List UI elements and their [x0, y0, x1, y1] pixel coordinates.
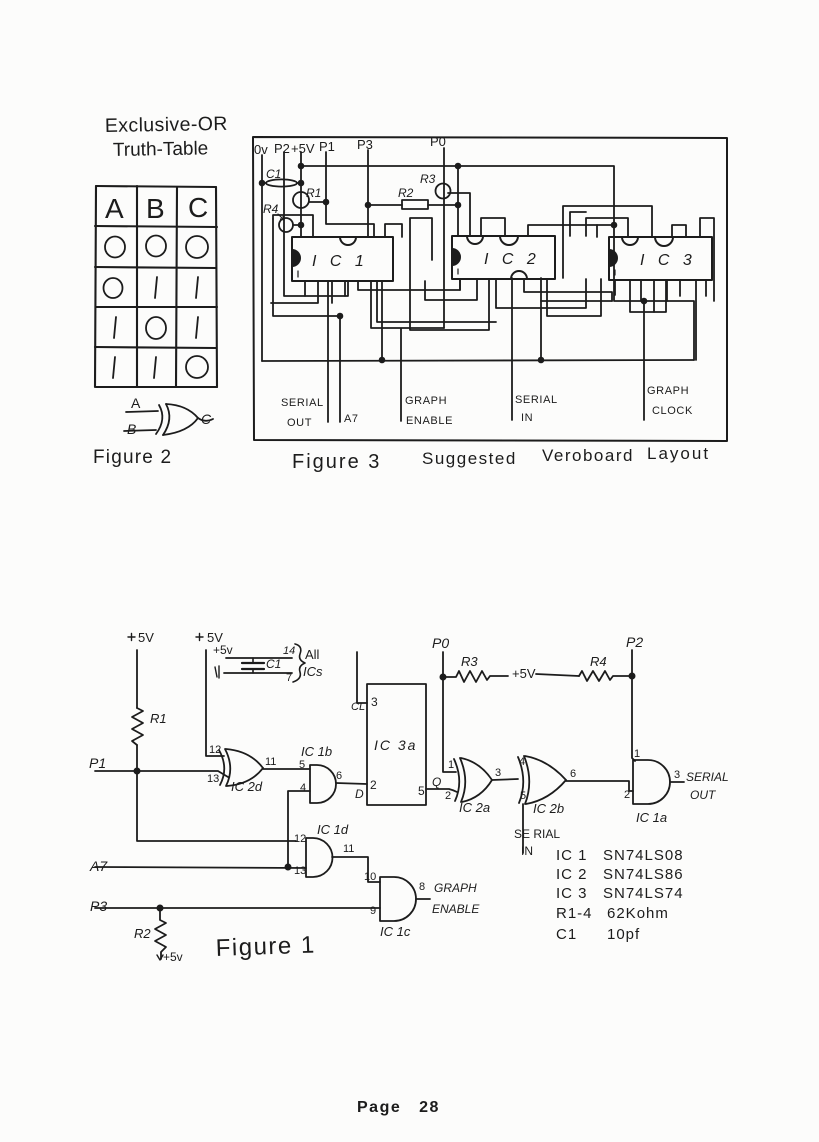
AND gate IC1a	[633, 760, 670, 804]
node P3	[95, 905, 380, 910]
flip-flop IC3a	[367, 684, 426, 805]
caption Figure 3	[292, 451, 381, 473]
wire serial in track	[511, 278, 513, 420]
svg-text:IC 1: IC 1	[556, 847, 588, 864]
svg-text:D: D	[355, 787, 364, 801]
svg-text:Exclusive-OR: Exclusive-OR	[105, 113, 228, 137]
svg-text:IC 3a: IC 3a	[374, 737, 417, 753]
AND gate IC1d	[306, 838, 333, 877]
row 1 0 1	[114, 317, 198, 339]
caption Figure 2	[93, 447, 172, 468]
resistor R3	[443, 671, 508, 682]
truth table grid	[95, 186, 217, 387]
node P1 input	[95, 771, 228, 777]
svg-text:R4: R4	[590, 654, 607, 669]
wire jog between IC1 IC2	[410, 218, 489, 330]
row 1 1 0	[113, 356, 208, 378]
outer board rectangle	[253, 137, 727, 441]
svg-text:Figure 1: Figure 1	[215, 932, 316, 962]
svg-text:P0: P0	[432, 635, 449, 651]
wire IC2-IC3 link	[524, 279, 612, 301]
svg-text:IC 1a: IC 1a	[636, 810, 667, 825]
clock stub CL	[357, 652, 367, 703]
svg-text:2: 2	[370, 778, 377, 792]
svg-text:+5V: +5V	[512, 666, 536, 681]
title Exclusive-OR	[105, 113, 228, 161]
svg-text:GRAPH: GRAPH	[647, 385, 689, 397]
svg-text:C1: C1	[556, 926, 577, 943]
row 0 0 0	[105, 236, 208, 259]
+5V mid label	[512, 666, 536, 681]
resistor R3	[436, 184, 471, 237]
wire IC1b out to IC3a D	[336, 783, 367, 784]
node P2	[629, 650, 635, 761]
wire IC1-IC2 link	[358, 279, 460, 290]
svg-text:13: 13	[207, 773, 219, 785]
wire IC1c out graph enable	[416, 898, 430, 900]
serial in stub	[522, 804, 524, 853]
svg-text:4: 4	[519, 756, 525, 768]
svg-text:P0: P0	[430, 134, 446, 149]
node P0	[440, 652, 456, 772]
+5V rail	[300, 152, 302, 237]
wire IC2 pin to bottom bus	[540, 278, 542, 360]
svg-text:SN74LS86: SN74LS86	[603, 866, 684, 883]
node A7	[95, 867, 306, 868]
svg-text:SERIAL: SERIAL	[686, 770, 729, 784]
svg-text:P3: P3	[357, 137, 373, 152]
wire jogs above IC3 left	[586, 218, 628, 237]
svg-text:8: 8	[419, 881, 425, 893]
svg-text:R2: R2	[398, 186, 414, 200]
svg-text:3: 3	[495, 767, 501, 779]
AND gate IC1c	[380, 877, 416, 921]
wire IC1a out serial out	[670, 781, 684, 783]
svg-text:IC 2: IC 2	[556, 866, 588, 883]
IC 1 package	[292, 237, 393, 281]
svg-text:OUT: OUT	[690, 788, 717, 802]
wire vertical into IC2 pin	[457, 166, 459, 236]
svg-text:6: 6	[336, 770, 342, 782]
svg-text:IC 2b: IC 2b	[533, 801, 564, 816]
svg-text:Page 28: Page 28	[357, 1099, 440, 1116]
svg-text:10: 10	[364, 871, 376, 883]
svg-text:I C 3: I C 3	[640, 252, 696, 269]
IC 3 package	[609, 237, 712, 280]
svg-text:5: 5	[418, 784, 425, 798]
wire IC1 pin to bottom bus	[381, 281, 383, 360]
svg-text:+5v: +5v	[213, 643, 233, 657]
svg-text:SE RIAL: SE RIAL	[514, 827, 560, 841]
svg-text:13: 13	[294, 865, 306, 877]
IC 2 package	[452, 236, 555, 279]
svg-text:R3: R3	[420, 172, 436, 186]
svg-text:Q: Q	[432, 775, 441, 789]
svg-text:5: 5	[299, 759, 305, 771]
svg-text:A7: A7	[89, 858, 108, 874]
resistor R1	[132, 708, 143, 745]
top rail labels	[254, 134, 446, 157]
svg-text:5V: 5V	[138, 630, 154, 645]
svg-text:P2: P2	[626, 634, 643, 650]
wire IC2b out to IC1a in2	[566, 781, 633, 791]
wire R4 loop to A7 track	[273, 215, 342, 422]
svg-text:IC 3: IC 3	[556, 885, 588, 902]
svg-text:B: B	[127, 421, 136, 437]
svg-text:IC 2d: IC 2d	[231, 779, 263, 794]
wire IC2 lower stub left	[459, 279, 461, 290]
svg-text:IC 1c: IC 1c	[380, 924, 411, 939]
wire IC2d out to IC1b in5	[263, 768, 310, 770]
svg-text:IC 1d: IC 1d	[317, 822, 349, 837]
svg-text:10pf: 10pf	[607, 926, 640, 943]
capacitor C1	[242, 658, 264, 673]
svg-text:P1: P1	[89, 755, 106, 771]
P3 rail	[367, 150, 369, 237]
svg-text:3: 3	[674, 769, 680, 781]
bottom track labels	[281, 385, 693, 429]
wire jog right of IC3	[700, 218, 714, 301]
+5V top bus	[299, 164, 694, 360]
resistor R2 vertical	[155, 908, 166, 960]
svg-text:SN74LS08: SN74LS08	[603, 847, 684, 864]
svg-text:62Kohm: 62Kohm	[607, 905, 669, 922]
header C	[188, 192, 208, 223]
header B	[146, 193, 165, 224]
P2 rail	[284, 152, 348, 296]
svg-text:5: 5	[520, 790, 526, 802]
wire IC1 bottom stubs	[271, 281, 318, 303]
wire Q to IC2a in2	[426, 789, 457, 792]
wire below IC3 horizontal	[541, 300, 612, 302]
labels A B C of xor	[127, 395, 212, 437]
svg-text:9: 9	[370, 905, 376, 917]
parts list	[556, 847, 684, 943]
svg-text:Truth-Table: Truth-Table	[113, 138, 209, 161]
svg-text:3: 3	[371, 695, 378, 709]
svg-text:GRAPH: GRAPH	[405, 395, 447, 407]
wire +5V to R4	[536, 674, 579, 676]
svg-text:C1: C1	[266, 657, 281, 671]
svg-text:Layout: Layout	[647, 444, 710, 463]
svg-text:P2: P2	[274, 141, 290, 156]
XOR gate IC2b	[518, 756, 566, 804]
wire bus jog above IC2	[528, 225, 614, 236]
svg-text:I C 2: I C 2	[484, 251, 540, 268]
svg-text:R4: R4	[263, 202, 279, 216]
svg-text:1: 1	[448, 759, 454, 771]
svg-text:A: A	[131, 395, 141, 411]
svg-text:GRAPH: GRAPH	[434, 881, 477, 895]
svg-text:2: 2	[624, 789, 630, 801]
svg-text:+5v: +5v	[163, 950, 183, 964]
svg-text:11: 11	[343, 843, 354, 855]
wire jog above IC3	[563, 206, 652, 278]
capacitor C1	[260, 179, 304, 186]
svg-text:IN: IN	[521, 844, 533, 858]
svg-text:CLOCK: CLOCK	[652, 405, 693, 417]
decoupling top rail	[226, 657, 292, 659]
resistor R2	[366, 200, 461, 209]
svg-text:B: B	[146, 193, 165, 224]
+5V supply left	[128, 634, 137, 709]
svg-text:IC 2a: IC 2a	[459, 800, 490, 815]
caption Suggested Veroboard Layout	[422, 444, 710, 468]
0v rail	[261, 155, 263, 361]
wire right of IC3 long loop	[672, 225, 686, 237]
svg-text:ICs: ICs	[303, 664, 323, 679]
wire graph clock track	[642, 299, 647, 420]
P0 rail	[443, 148, 445, 328]
svg-text:R1: R1	[150, 711, 167, 726]
header A	[105, 193, 124, 224]
wire jogs above IC2 right	[481, 218, 505, 236]
resistor R4	[579, 671, 632, 681]
wire IC3 lower runs	[615, 280, 667, 312]
svg-text:12: 12	[209, 744, 221, 756]
svg-text:IN: IN	[521, 412, 533, 424]
wire IC1 lower stubs extra	[332, 281, 345, 303]
svg-text:ENABLE: ENABLE	[406, 415, 453, 427]
decoupling bottom rail	[215, 666, 292, 678]
svg-text:ENABLE: ENABLE	[432, 902, 480, 916]
svg-text:C: C	[201, 411, 212, 427]
svg-text:Veroboard: Veroboard	[542, 446, 634, 465]
wire IC2 bottom stubs	[425, 279, 586, 308]
wire serial out track	[327, 281, 329, 422]
decoupling +5v label	[213, 643, 233, 657]
brace All ICs	[293, 644, 305, 682]
svg-text:Figure 3: Figure 3	[292, 451, 381, 473]
row 0 1 1	[104, 277, 199, 298]
AND gate IC1b	[310, 765, 336, 803]
XOR gate IC2d	[219, 749, 263, 786]
wire R1 to P1 junction and down to IC1d	[134, 745, 296, 841]
svg-text:P3: P3	[90, 898, 107, 914]
resistor R4	[278, 214, 303, 232]
wire gap verticals IC2-IC3	[570, 212, 586, 236]
svg-text:R2: R2	[134, 926, 151, 941]
XOR gate IC2a	[454, 758, 492, 802]
svg-text:Suggested: Suggested	[422, 449, 517, 468]
svg-text:11: 11	[265, 756, 276, 768]
svg-text:SERIAL: SERIAL	[281, 397, 324, 409]
svg-text:SERIAL: SERIAL	[515, 394, 558, 406]
svg-text:12: 12	[294, 833, 306, 845]
XOR gate symbol fig2	[124, 404, 213, 435]
wire IC3 bottom stubs	[630, 280, 696, 360]
P1 rail	[326, 152, 374, 237]
svg-text:I C 1: I C 1	[312, 253, 368, 270]
svg-text:A7: A7	[344, 413, 359, 425]
resistor R1	[293, 192, 328, 208]
+5V supply second	[196, 634, 224, 757]
svg-text:Figure 2: Figure 2	[93, 447, 172, 468]
svg-text:R3: R3	[461, 654, 478, 669]
svg-text:14: 14	[283, 645, 295, 657]
svg-text:All: All	[305, 647, 320, 662]
svg-text:0v: 0v	[254, 142, 268, 157]
svg-text:A: A	[105, 193, 124, 224]
svg-text:4: 4	[300, 782, 306, 794]
wire IC2a out to IC2b in4	[492, 779, 518, 780]
wire IC3 area link	[596, 225, 598, 237]
svg-text:C: C	[188, 192, 208, 223]
wire graph enable track	[371, 281, 444, 421]
svg-text:SN74LS74: SN74LS74	[603, 885, 684, 902]
wire IC1b in4 down to A7	[285, 791, 310, 870]
wire IC2 right long run	[547, 279, 601, 316]
pin numbers 14 7	[283, 645, 295, 684]
svg-text:R1: R1	[306, 186, 321, 200]
long bottom bus	[262, 358, 694, 363]
Q output label	[432, 775, 441, 789]
svg-text:+5V: +5V	[291, 141, 315, 156]
svg-text:2: 2	[445, 790, 451, 802]
svg-text:7: 7	[286, 672, 292, 684]
svg-text:C1: C1	[266, 167, 281, 181]
svg-text:1: 1	[634, 748, 640, 760]
svg-text:6: 6	[570, 768, 576, 780]
svg-text:OUT: OUT	[287, 417, 312, 429]
svg-text:P1: P1	[319, 139, 335, 154]
wire top jogs above IC1	[385, 224, 402, 237]
svg-text:IC 1b: IC 1b	[301, 744, 332, 759]
svg-text:R1-4: R1-4	[556, 905, 593, 922]
wire IC1 right stub long run	[377, 281, 496, 322]
caption Figure 1	[215, 932, 316, 962]
wire IC1d out to IC1c in10	[332, 857, 380, 882]
svg-text:CL: CL	[351, 701, 365, 713]
